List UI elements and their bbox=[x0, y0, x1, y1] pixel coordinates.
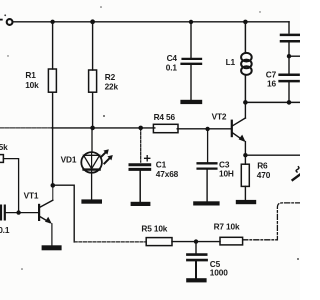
svg-text:VT1: VT1 bbox=[24, 190, 39, 200]
svg-text:C1: C1 bbox=[156, 159, 167, 169]
wire middle bus (left part) bbox=[0, 127, 155, 129]
svg-text:VT2: VT2 bbox=[212, 112, 227, 122]
input terminal bbox=[0, 14, 13, 25]
svg-text:10H: 10H bbox=[219, 168, 234, 178]
capacitor C3 bbox=[198, 129, 217, 201]
node junction base bus C3 bbox=[205, 127, 209, 131]
ground under VT1 bbox=[42, 245, 62, 250]
label R2 22k bbox=[105, 72, 119, 91]
node junction top R2 bbox=[90, 19, 95, 24]
capacitor C1 electrolytic bbox=[130, 128, 150, 204]
LED VD1 arrows bbox=[101, 149, 113, 163]
svg-text:1000: 1000 bbox=[210, 268, 228, 278]
capacitor C2 0.1 (cut off at left edge) bbox=[1, 206, 5, 220]
label C5 1000 bbox=[210, 259, 228, 278]
dash-dot shield boundary bbox=[243, 203, 300, 240]
node junction VT2 emitter bbox=[243, 153, 247, 157]
wire top supply bus bbox=[13, 21, 289, 23]
ground under C3 bbox=[193, 201, 219, 205]
node junction VT1 collector bbox=[51, 183, 56, 188]
resistor R6 bbox=[241, 155, 249, 200]
ground under C4 bbox=[180, 100, 202, 104]
capacitor C4 bbox=[182, 22, 201, 100]
svg-text:22k: 22k bbox=[105, 82, 119, 92]
node junction L1 bottom bbox=[243, 100, 248, 105]
svg-text:47x68: 47x68 bbox=[156, 169, 179, 179]
ground under C1 bbox=[131, 202, 151, 206]
svg-text:5k: 5k bbox=[0, 142, 8, 152]
svg-text:R5 10k: R5 10k bbox=[141, 223, 167, 233]
node junction top L1 bbox=[243, 20, 248, 25]
capacitor C5 bbox=[187, 242, 206, 279]
wire emitter VT2 to right edge bbox=[245, 154, 300, 156]
wire lower bus to R5 (faint dashed scan) bbox=[74, 241, 146, 243]
label R1 10k bbox=[25, 70, 39, 90]
wire VT1 base bbox=[6, 212, 38, 214]
svg-text:10k: 10k bbox=[25, 80, 39, 90]
label C7 16 bbox=[266, 70, 277, 89]
resistor R4 bbox=[153, 124, 230, 132]
ground under R6 bbox=[236, 200, 256, 204]
svg-text:VD1: VD1 bbox=[61, 154, 77, 164]
capacitor C6 (cut off at right edge) bbox=[281, 22, 300, 56]
label C3 10H bbox=[219, 160, 234, 179]
svg-text:0.1: 0.1 bbox=[166, 63, 178, 73]
svg-text:L1: L1 bbox=[226, 57, 236, 67]
label C4 0.1 bbox=[166, 53, 178, 72]
resistor R7 bbox=[220, 237, 243, 245]
resistor R3 (cut off at left edge) bbox=[0, 155, 19, 213]
resistor R5 bbox=[146, 238, 220, 246]
ground under C5 bbox=[186, 278, 206, 282]
connector fragment at right edge bbox=[293, 167, 300, 180]
svg-text:R7 10k: R7 10k bbox=[214, 222, 240, 232]
wire collector bus L1 to C7 column bbox=[245, 101, 300, 103]
wire collector VT1 to lower bus bbox=[53, 185, 74, 242]
label C1 47x68 bbox=[156, 159, 179, 179]
node junction C6-C7 bbox=[287, 54, 300, 58]
node junction bus C1 bbox=[138, 126, 143, 131]
transistor VT2 bbox=[231, 102, 246, 155]
transistor VT1 bbox=[38, 185, 53, 245]
node junction C5 bbox=[194, 239, 198, 243]
svg-text:0.1: 0.1 bbox=[0, 225, 10, 235]
svg-text:R4 56: R4 56 bbox=[154, 112, 176, 122]
ground under VD1 bbox=[81, 199, 102, 203]
node junction bus R2/VD1 bbox=[90, 126, 95, 131]
resistor R1 bbox=[48, 22, 56, 186]
node junction VT1 base bbox=[16, 210, 20, 214]
capacitor C7 bbox=[280, 56, 299, 102]
node junction top C4 bbox=[189, 20, 193, 24]
node junction top R1 bbox=[50, 20, 54, 24]
svg-text:16: 16 bbox=[267, 79, 276, 89]
node junction C7 bottom bbox=[287, 100, 292, 105]
svg-text:470: 470 bbox=[257, 170, 271, 180]
inductor L1 bbox=[241, 22, 252, 103]
svg-text:R1: R1 bbox=[25, 70, 36, 80]
label R6 470 bbox=[257, 161, 271, 180]
LED VD1 bbox=[81, 128, 102, 199]
resistor R2 bbox=[89, 22, 97, 128]
